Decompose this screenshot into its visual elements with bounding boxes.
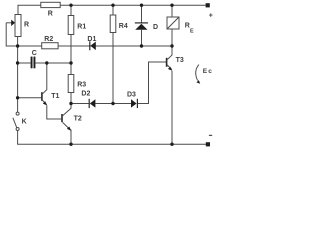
junction node bottom rail at T2 emitter: [69, 143, 72, 146]
wire capacitor row right: [35, 62, 71, 64]
transistor T1: [42, 89, 47, 105]
wire relay top lead: [171, 5, 173, 17]
label -: [209, 135, 212, 136]
junction node on top rail at relay: [170, 3, 173, 6]
svg-text:T3: T3: [176, 57, 184, 64]
resistor R4: [110, 15, 116, 33]
Ec arrow: [196, 65, 199, 81]
svg-text:E: E: [190, 29, 194, 35]
diode D (vertical): [135, 23, 148, 30]
junction node on top rail at R1: [69, 3, 72, 6]
wire R1 column: [70, 5, 72, 74]
capacitor C plates: [31, 57, 33, 69]
junction node R2 row at relay / T3 collector: [170, 44, 173, 47]
svg-text:D2: D2: [81, 90, 90, 97]
wire pot wiper column: [5, 23, 7, 47]
svg-text:R4: R4: [119, 23, 128, 30]
junction node capacitor row left: [16, 61, 19, 64]
svg-text:+: +: [209, 13, 213, 20]
junction node T1 base row: [16, 96, 19, 99]
svg-text:K: K: [22, 119, 27, 126]
wire D2 row: [71, 103, 89, 105]
svg-text:R2: R2: [44, 36, 53, 43]
svg-text:R: R: [48, 11, 53, 18]
junction node D2 row at R3 / T2 collector: [69, 102, 72, 105]
potentiometer R body: [15, 15, 21, 37]
wire T1 emitter to T2 base: [47, 105, 62, 119]
junction node R2 row at diode D: [140, 44, 143, 47]
svg-text:R3: R3: [77, 82, 86, 89]
terminal + (top right): [206, 3, 210, 7]
resistor R2: [42, 43, 58, 49]
wire T3 emitter column: [171, 71, 173, 145]
diode D2: [89, 99, 95, 108]
transistor T2: [62, 108, 71, 131]
junction node on top rail at diode D: [140, 3, 143, 6]
svg-text:c: c: [208, 68, 212, 75]
wire T3 collector lead: [171, 46, 173, 55]
wire T2 emitter column: [70, 130, 72, 145]
resistor R3: [68, 75, 74, 93]
switch K: [13, 112, 19, 130]
wire R4 top lead: [112, 5, 114, 15]
svg-text:R1: R1: [77, 23, 86, 30]
wire relay bottom lead: [171, 29, 173, 46]
wire D2 to D3: [95, 103, 131, 105]
svg-text:D1: D1: [87, 36, 96, 43]
svg-text:C: C: [32, 50, 37, 57]
junction node on top rail at R4: [111, 3, 114, 6]
wire R2/D1 row: [6, 45, 172, 47]
svg-text:E: E: [203, 68, 208, 75]
wire R3 to T2 collector column: [70, 93, 72, 109]
junction node bottom rail at T3 emitter: [170, 143, 173, 146]
wire diode D top lead: [141, 5, 143, 23]
svg-text:D3: D3: [127, 91, 136, 98]
wire capacitor row left: [18, 62, 31, 64]
svg-text:T1: T1: [51, 93, 59, 100]
wire left column pot to switch: [17, 37, 19, 113]
diode D1: [90, 41, 96, 50]
svg-text:R: R: [24, 22, 29, 29]
potentiometer wiper arrow: [6, 22, 11, 24]
relay coil RE: [167, 17, 179, 29]
transistor T3: [167, 55, 173, 71]
wire R4 bottom column: [112, 33, 114, 104]
svg-text:T2: T2: [74, 115, 82, 122]
terminal - (bottom right): [206, 142, 210, 146]
wire T1 collector column: [46, 63, 48, 89]
resistor R1: [68, 16, 74, 35]
junction node capacitor row at R1/R3: [69, 61, 72, 64]
wire top rail: [18, 5, 206, 14]
wire diode D bottom lead: [141, 30, 143, 46]
resistor R (top): [41, 2, 60, 7]
junction node capacitor row at T1 collector: [45, 61, 48, 64]
wire T1 base row: [18, 97, 42, 99]
diode D3: [131, 99, 137, 108]
wire D3 to corner and T3 base: [138, 62, 166, 104]
junction node R2 row at potentiometer: [16, 44, 19, 47]
svg-text:D: D: [153, 24, 158, 31]
junction node D2 row at R4: [111, 102, 114, 105]
wire left column switch to bottom rail: [18, 131, 208, 145]
